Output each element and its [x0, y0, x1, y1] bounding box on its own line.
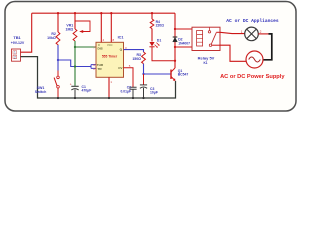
IC1 555 timer — [93, 36, 131, 84]
node trigger junction — [57, 59, 59, 61]
svg-text:1MΩ: 1MΩ — [66, 27, 74, 31]
svg-text:DIS: DIS — [98, 47, 103, 51]
wire R3 bottom to base — [144, 64, 171, 74]
wire top +V rail — [32, 12, 175, 14]
wire reset pin4 stub — [100, 13, 102, 42]
svg-text:+: + — [70, 83, 72, 87]
lamp appliance — [241, 27, 262, 41]
svg-text:0.01μF: 0.01μF — [121, 89, 131, 93]
svg-text:1: 1 — [241, 30, 243, 34]
svg-text:10μF: 10μF — [150, 91, 158, 95]
svg-text:BC547: BC547 — [178, 73, 189, 77]
svg-text:Switch: Switch — [35, 90, 47, 94]
svg-text:AC or DC Appliances: AC or DC Appliances — [226, 18, 279, 24]
svg-text:VCC: VCC — [107, 43, 113, 47]
wire output Q to R3 — [124, 50, 144, 52]
node base/C3 — [142, 73, 144, 75]
wire V+ from TB1 pin1 up to top rail — [21, 13, 32, 52]
wire lamp to supply (black) — [258, 33, 268, 35]
wire ground: TB1 pin2 right, down, bottom rail, up to Q1 emitter — [21, 57, 176, 98]
svg-text:150Ω: 150Ω — [132, 57, 141, 61]
LED D1 — [149, 29, 175, 61]
svg-text:TB1: TB1 — [13, 35, 21, 40]
capacitor C1 — [70, 67, 92, 99]
connector TB1 — [11, 35, 25, 61]
potentiometer VR1 — [66, 13, 90, 41]
node dots bottom rail — [57, 97, 59, 99]
wire gnd pin1 stub — [108, 77, 110, 98]
diode D2 — [173, 37, 190, 45]
svg-text:D1: D1 — [157, 38, 161, 42]
node dots top rail — [57, 12, 59, 14]
transistor Q1 — [171, 68, 188, 81]
capacitor C2 — [121, 68, 137, 98]
svg-text:220Ω: 220Ω — [156, 24, 165, 28]
wire +V down right column — [174, 13, 176, 68]
resistor R2 — [47, 13, 60, 45]
svg-text:AC or DC Power Supply: AC or DC Power Supply — [220, 74, 285, 80]
node green/blue cross — [74, 65, 76, 67]
wire VR1 bottom to DIS and down — [74, 41, 76, 67]
wire relay common to supply — [220, 45, 246, 61]
svg-text:IC1: IC1 — [118, 36, 124, 40]
resistor R3 — [132, 52, 145, 64]
svg-text:555 Timer: 555 Timer — [102, 54, 118, 58]
source AC supply — [246, 51, 263, 68]
svg-text:1: 1 — [14, 51, 16, 55]
relay K1 — [175, 27, 220, 65]
svg-text:K1: K1 — [203, 61, 207, 65]
switch SW1 — [35, 45, 60, 98]
svg-text:1N4007: 1N4007 — [178, 41, 190, 45]
wire trigger: R2 bottom to THR/TR pins — [58, 60, 91, 67]
svg-text:10kΩ: 10kΩ — [47, 36, 56, 40]
wire vcc pin8 stub — [110, 13, 112, 42]
resistor R4 — [150, 13, 164, 28]
capacitor C3 — [140, 74, 158, 98]
svg-text:2: 2 — [260, 30, 262, 34]
wire relay NO to lamp — [220, 32, 245, 33]
svg-text:470μF: 470μF — [82, 89, 92, 93]
svg-text:+9V-12V: +9V-12V — [11, 41, 25, 45]
svg-text:2: 2 — [14, 55, 16, 59]
node dots relay column — [174, 28, 176, 30]
node VR1/DIS — [74, 46, 76, 48]
